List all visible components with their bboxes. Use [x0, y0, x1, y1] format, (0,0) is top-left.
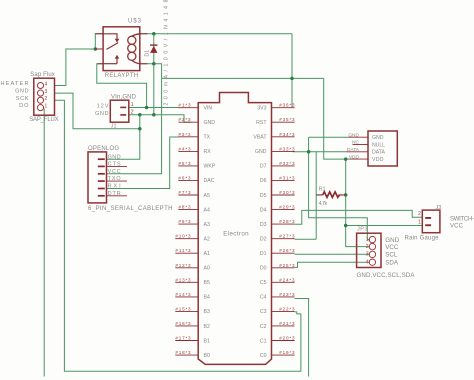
- wire J1 pin2 to chip GND: [129, 115, 192, 123]
- wire D2 to R1 pullup column: [295, 152, 317, 240]
- wire C3 big bottom loop to SCK: [55, 100, 301, 371]
- svg-text:A4: A4: [204, 207, 210, 213]
- junction at (139.8,114.7): [138, 113, 142, 117]
- svg-text:#7*3: #7*3: [178, 190, 191, 195]
- svg-text:DAC: DAC: [204, 178, 215, 184]
- junction at (345.7,225.5): [344, 224, 348, 228]
- svg-text:A2: A2: [204, 237, 210, 243]
- junction at (153.8,114.7): [152, 113, 156, 117]
- svg-text:6_PIN_SERIAL_CABLEPTH: 6_PIN_SERIAL_CABLEPTH: [88, 206, 173, 212]
- svg-text:#34*3: #34*3: [279, 132, 295, 137]
- svg-text:#30*3: #30*3: [279, 190, 295, 195]
- svg-text:Sap Flux: Sap Flux: [30, 72, 55, 78]
- svg-text:VIN: VIN: [204, 106, 213, 112]
- svg-text:2: 2: [418, 211, 421, 217]
- svg-text:A5: A5: [204, 193, 210, 199]
- svg-text:D2: D2: [260, 237, 267, 243]
- JP3 labels: [385, 237, 399, 267]
- svg-text:J1: J1: [111, 123, 117, 129]
- svg-text:#21*3: #21*3: [279, 321, 295, 326]
- junction at (95.3,49): [94, 47, 98, 51]
- sensor box: [368, 131, 397, 166]
- svg-text:NC: NC: [352, 140, 359, 146]
- svg-text:RXI: RXI: [108, 184, 121, 190]
- svg-text:C1: C1: [260, 338, 267, 344]
- junction at (153.8,33.8): [152, 32, 156, 36]
- svg-text:#36*3: #36*3: [279, 103, 295, 108]
- svg-text:C4: C4: [260, 295, 267, 301]
- svg-text:A3: A3: [204, 222, 210, 228]
- svg-text:D5: D5: [260, 193, 267, 199]
- svg-text:3: 3: [45, 89, 48, 95]
- svg-text:#23*3: #23*3: [279, 292, 295, 297]
- svg-text:B0: B0: [204, 353, 210, 359]
- svg-text:GND: GND: [108, 154, 121, 160]
- svg-text:B2: B2: [204, 324, 210, 330]
- svg-text:#8*3: #8*3: [178, 205, 191, 210]
- svg-text:200mA/100V/1N4148: 200mA/100V/1N4148: [163, 0, 169, 106]
- SAP_FLUX pin numbers: [45, 81, 48, 109]
- junction at (292,78.4): [290, 77, 294, 81]
- wire DATA row: [293, 151, 346, 153]
- relay coil: [128, 34, 140, 64]
- OPENLOG pin bars: [98, 158, 105, 196]
- wire GND column to OPENLOG: [107, 115, 140, 160]
- wire D3 to J3 pin 2: [295, 210, 423, 224]
- svg-text:C2: C2: [260, 324, 267, 330]
- svg-text:OPENLOG: OPENLOG: [88, 146, 119, 152]
- svg-text:#1*3: #1*3: [178, 103, 191, 108]
- svg-text:#33*3: #33*3: [279, 146, 295, 151]
- J1 pin numbers: [131, 102, 134, 116]
- junction at (153.8,63.7): [152, 62, 156, 65]
- svg-text:NULL: NULL: [372, 142, 385, 148]
- connector JP3 box: [357, 233, 381, 267]
- svg-text:VDD: VDD: [372, 157, 384, 163]
- relay switch arrowheads: [115, 39, 120, 59]
- wire J1 pin1 to chip VIN: [129, 107, 179, 109]
- svg-text:#11*3: #11*3: [175, 248, 191, 253]
- svg-text:R1: R1: [319, 186, 326, 192]
- svg-text:C5: C5: [260, 280, 267, 286]
- svg-text:2: 2: [366, 244, 369, 250]
- svg-text:TXO: TXO: [108, 176, 121, 182]
- chip left pin stubs and net labels: [175, 108, 198, 355]
- wire SDA: [295, 262, 370, 267]
- junction at (308.6,151.8): [307, 150, 311, 154]
- svg-text:GND: GND: [372, 135, 384, 141]
- svg-text:RELAYPTH: RELAYPTH: [105, 73, 139, 79]
- svg-text:A0: A0: [204, 266, 210, 272]
- J3 pin bars: [425, 217, 431, 226]
- svg-text:#28*3: #28*3: [279, 219, 295, 224]
- svg-text:#3*3: #3*3: [178, 132, 191, 137]
- svg-text:Rain Gauge: Rain Gauge: [405, 235, 440, 241]
- svg-text:#10*3: #10*3: [175, 234, 191, 239]
- svg-text:VDD: VDD: [349, 154, 360, 160]
- svg-text:#12*3: #12*3: [175, 263, 191, 268]
- svg-text:C3: C3: [260, 309, 267, 315]
- SAP_FLUX pin circles: [37, 82, 43, 110]
- svg-text:4.7k: 4.7k: [319, 201, 328, 207]
- svg-text:2: 2: [45, 96, 48, 102]
- svg-text:GND: GND: [348, 132, 359, 138]
- svg-text:D3: D3: [260, 222, 267, 228]
- svg-text:VCC: VCC: [108, 169, 121, 175]
- svg-text:4: 4: [45, 81, 48, 87]
- OPENLOG pin labels: [108, 154, 121, 197]
- wire relay coil bottom to OPENLOG VCC: [107, 64, 162, 174]
- svg-text:GND: GND: [15, 89, 28, 95]
- wire sap GND to J1 GND net: [55, 93, 140, 129]
- svg-text:D1: D1: [260, 251, 267, 257]
- wire down to sensor VDD: [324, 78, 350, 159]
- svg-text:RX: RX: [204, 149, 212, 155]
- svg-text:GND: GND: [255, 149, 267, 155]
- junction at (345.7,194.9): [344, 193, 348, 197]
- wire J3 pin 1: [346, 225, 423, 227]
- svg-text:DATA: DATA: [347, 147, 360, 153]
- svg-text:#5*3: #5*3: [178, 161, 191, 166]
- svg-text:#26*3: #26*3: [279, 248, 295, 253]
- svg-text:12V: 12V: [97, 103, 109, 109]
- svg-text:#18*3: #18*3: [175, 350, 191, 355]
- svg-text:DTR: DTR: [108, 191, 121, 197]
- J1 pin bars: [120, 107, 126, 116]
- svg-text:HEATER: HEATER: [1, 81, 29, 87]
- svg-text:SCL: SCL: [385, 252, 398, 259]
- connector OPENLOG box: [88, 152, 107, 203]
- IC U1 Electron outline: [198, 93, 271, 365]
- svg-text:SAP_FLUX: SAP_FLUX: [29, 117, 59, 123]
- svg-text:#14*3: #14*3: [175, 292, 191, 297]
- wire VDD column x=345.7: [345, 159, 347, 225]
- svg-text:D4: D4: [260, 207, 267, 213]
- wire diode column: [153, 34, 155, 115]
- svg-text:C0: C0: [260, 353, 267, 359]
- svg-text:B4: B4: [204, 295, 210, 301]
- svg-text:VBAT: VBAT: [253, 135, 267, 141]
- connector J3 box: [422, 210, 440, 233]
- diode D1: [150, 44, 157, 53]
- wire HEATER to relay contacts: [55, 34, 104, 86]
- svg-text:JP3: JP3: [357, 227, 368, 233]
- svg-text:SDA: SDA: [385, 259, 399, 266]
- svg-text:4: 4: [366, 259, 369, 265]
- svg-text:#32*3: #32*3: [279, 161, 295, 166]
- svg-text:3: 3: [366, 252, 369, 258]
- svg-text:#6*3: #6*3: [178, 175, 191, 180]
- svg-text:#9*3: #9*3: [178, 219, 191, 224]
- relay switch contacts: [103, 34, 118, 64]
- svg-text:GND: GND: [95, 111, 108, 117]
- wire DATA down to JP3 GND pin: [309, 152, 370, 240]
- svg-text:#31*3: #31*3: [279, 175, 295, 180]
- svg-text:#20*3: #20*3: [279, 336, 295, 341]
- svg-text:3V3: 3V3: [257, 106, 266, 112]
- junction at (345.7,159.1): [344, 157, 348, 161]
- svg-text:B3: B3: [204, 309, 210, 315]
- svg-text:#24*3: #24*3: [279, 277, 295, 282]
- svg-text:#25*3: #25*3: [279, 263, 295, 268]
- junction at (146.6,107.5): [145, 106, 149, 110]
- svg-text:#35*3: #35*3: [279, 117, 295, 122]
- connector SAP_FLUX box: [34, 78, 55, 115]
- svg-text:#17*3: #17*3: [175, 336, 191, 341]
- chip pin names: [204, 106, 216, 359]
- wire OPENLOG RXI to chip TX: [107, 137, 179, 189]
- relay U$3 box: [103, 27, 140, 71]
- svg-text:A1: A1: [204, 251, 210, 257]
- JP3 pin circles: [369, 236, 375, 265]
- svg-text:#16*3: #16*3: [175, 321, 191, 326]
- svg-text:#4*3: #4*3: [178, 146, 191, 151]
- wire vertical to 3V3 pin: [291, 34, 293, 107]
- svg-text:Electron: Electron: [223, 231, 249, 238]
- svg-text:#22*3: #22*3: [279, 306, 295, 311]
- svg-text:#2*3: #2*3: [178, 117, 191, 122]
- svg-text:GND: GND: [385, 237, 399, 244]
- svg-text:#27*3: #27*3: [279, 234, 295, 239]
- svg-text:SWITCH-: SWITCH-: [450, 216, 474, 222]
- svg-text:1: 1: [131, 102, 134, 108]
- wire SCL: [295, 253, 370, 255]
- svg-text:2: 2: [131, 110, 134, 116]
- resistor R1: [323, 192, 340, 197]
- svg-text:WKP: WKP: [204, 164, 216, 170]
- svg-text:D6: D6: [260, 178, 267, 184]
- svg-text:VCC: VCC: [385, 244, 399, 251]
- wire DO drop off bottom: [43, 109, 45, 377]
- chip right pin stubs and net labels: [272, 108, 295, 355]
- wire 3V3 branch row y=78.4: [162, 77, 324, 79]
- svg-text:RST: RST: [256, 120, 267, 126]
- svg-text:GND: GND: [204, 120, 216, 126]
- svg-text:SCK: SCK: [16, 96, 29, 102]
- svg-text:D7: D7: [260, 164, 267, 170]
- junction at (139.8,128.8): [138, 127, 142, 131]
- svg-text:CTS: CTS: [108, 162, 121, 168]
- svg-text:VIn,GND: VIn,GND: [111, 95, 137, 101]
- wire sensor GND feed: [309, 137, 348, 152]
- svg-text:D1: D1: [145, 50, 151, 57]
- svg-text:#19*3: #19*3: [279, 350, 295, 355]
- svg-text:#29*3: #29*3: [279, 205, 295, 210]
- svg-text:U$3: U$3: [128, 19, 142, 25]
- svg-text:1: 1: [366, 237, 369, 243]
- wire C4 drop off bottom: [295, 299, 309, 377]
- OPENLOG unconnected pin underlines CTS TXO DTR: [107, 166, 128, 195]
- J3 pin numbers: [418, 211, 421, 226]
- svg-text:#13*3: #13*3: [175, 277, 191, 282]
- connector J1 box: [110, 100, 129, 122]
- svg-text:GND,VCC,SCL,SDA: GND,VCC,SCL,SDA: [357, 272, 416, 279]
- svg-text:DO: DO: [19, 103, 29, 109]
- svg-text:1: 1: [418, 220, 421, 226]
- wire relay common to VIN net: [97, 64, 147, 108]
- svg-text:J3: J3: [436, 205, 442, 211]
- svg-text:TX: TX: [204, 135, 211, 141]
- svg-text:B5: B5: [204, 280, 210, 286]
- svg-text:1: 1: [45, 103, 48, 109]
- relay pin stubs: [95, 34, 147, 64]
- wire relay coil top to right column: [140, 33, 292, 35]
- svg-text:B1: B1: [204, 338, 210, 344]
- svg-text:D0: D0: [260, 266, 267, 272]
- svg-text:#15*3: #15*3: [175, 306, 191, 311]
- svg-text:VCC: VCC: [450, 224, 464, 230]
- svg-text:DATA: DATA: [372, 150, 386, 156]
- sensor pin rows: [346, 137, 368, 159]
- wire JP3 VCC: [346, 226, 370, 247]
